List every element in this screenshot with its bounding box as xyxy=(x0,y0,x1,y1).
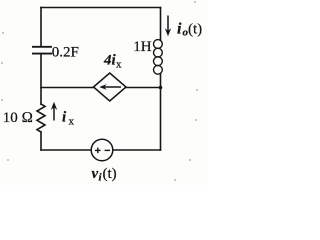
svg-text:4i: 4i xyxy=(103,53,117,69)
svg-text:1H: 1H xyxy=(133,39,152,55)
svg-text:(t): (t) xyxy=(103,166,117,182)
svg-text:(t): (t) xyxy=(188,22,202,38)
svg-text:i: i xyxy=(177,21,182,38)
svg-text:x: x xyxy=(116,59,122,71)
svg-text:0.2F: 0.2F xyxy=(52,45,79,61)
svg-text:v: v xyxy=(92,166,99,182)
svg-text:x: x xyxy=(69,116,75,128)
svg-text:10 Ω: 10 Ω xyxy=(3,110,33,126)
